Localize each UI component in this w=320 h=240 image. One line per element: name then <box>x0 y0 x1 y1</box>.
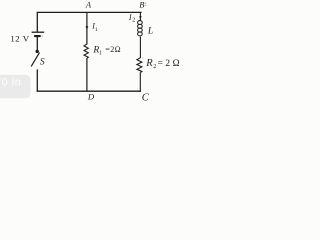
wire battery to switch <box>36 37 38 50</box>
svg-text:A: A <box>85 0 92 10</box>
wire top (A-B) <box>37 11 142 13</box>
svg-text:B: B <box>139 0 144 10</box>
resistor R2 zigzag <box>137 58 142 73</box>
svg-text:=2Ω: =2Ω <box>158 59 183 69</box>
current arrow I2 <box>128 13 142 24</box>
svg-text:L: L <box>147 27 153 37</box>
overlay badge "0 in" <box>0 75 31 99</box>
svg-text:1: 1 <box>99 50 102 56</box>
svg-text:2: 2 <box>132 18 135 24</box>
svg-text:D: D <box>87 92 95 102</box>
wire right middle (L to R2) <box>139 37 141 59</box>
wire bottom (D-C) <box>37 90 141 92</box>
svg-text:1: 1 <box>95 27 98 33</box>
wire right upper (B down) <box>139 12 141 21</box>
wire left upper (to battery) <box>36 12 38 32</box>
wire right lower (R2 to C) <box>139 73 141 92</box>
wire middle upper (A down) <box>86 12 88 44</box>
label R1 = 2 ohm <box>92 45 121 57</box>
wire middle lower (R1 to D) <box>86 58 88 92</box>
label R2 = 2 ohm <box>145 58 182 70</box>
svg-text:S: S <box>40 57 45 67</box>
svg-text:=2Ω: =2Ω <box>105 45 121 54</box>
resistor R1 zigzag <box>84 44 88 58</box>
svg-text:70 in: 70 in <box>0 77 21 89</box>
switch S <box>31 50 45 68</box>
wire left lower (switch to corner) <box>36 69 38 91</box>
svg-text:2: 2 <box>153 64 156 70</box>
svg-text:R: R <box>145 58 153 69</box>
svg-text:C: C <box>142 93 150 104</box>
svg-text:12 V: 12 V <box>10 33 29 43</box>
inductor L coil <box>138 21 143 36</box>
current arrow I1 <box>86 22 98 33</box>
battery 12 V <box>10 32 44 43</box>
